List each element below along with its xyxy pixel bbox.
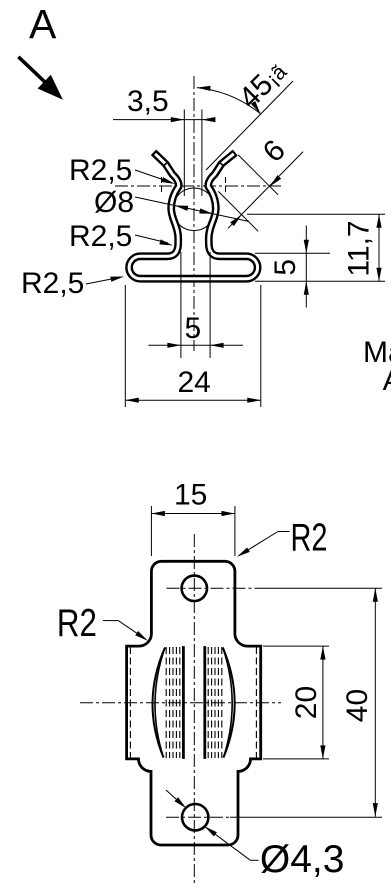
svg-text:R2: R2 [57,602,97,645]
svg-text:Ø4,3: Ø4,3 [260,838,345,881]
svg-text:40: 40 [341,689,374,722]
svg-text:11,7: 11,7 [343,220,376,276]
svg-text:3,5: 3,5 [127,85,169,118]
svg-text:R2,5: R2,5 [21,267,84,300]
svg-text:24: 24 [178,366,211,399]
svg-text:R2,5: R2,5 [69,220,132,253]
svg-text:A: A [29,1,57,47]
svg-text:20: 20 [290,686,323,719]
svg-text:5: 5 [269,259,302,276]
svg-text:R2: R2 [291,516,328,559]
svg-text:15: 15 [174,479,207,512]
svg-text:R2,5: R2,5 [69,154,132,187]
svg-text:A: A [383,364,391,397]
svg-text:Ø8: Ø8 [94,186,134,219]
svg-text:5: 5 [185,312,202,345]
